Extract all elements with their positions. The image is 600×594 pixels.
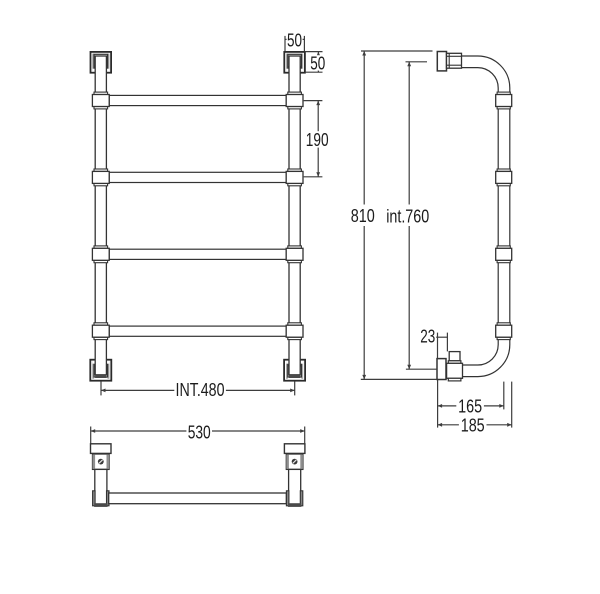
- svg-text:810: 810: [351, 205, 375, 226]
- svg-text:530: 530: [188, 421, 211, 442]
- svg-text:23: 23: [420, 326, 435, 347]
- svg-text:190: 190: [306, 129, 329, 150]
- svg-text:int.760: int.760: [386, 205, 429, 226]
- svg-text:INT.480: INT.480: [176, 379, 225, 400]
- svg-text:165: 165: [458, 396, 482, 417]
- svg-text:185: 185: [461, 415, 485, 436]
- svg-text:50: 50: [310, 52, 325, 73]
- svg-text:50: 50: [287, 29, 302, 50]
